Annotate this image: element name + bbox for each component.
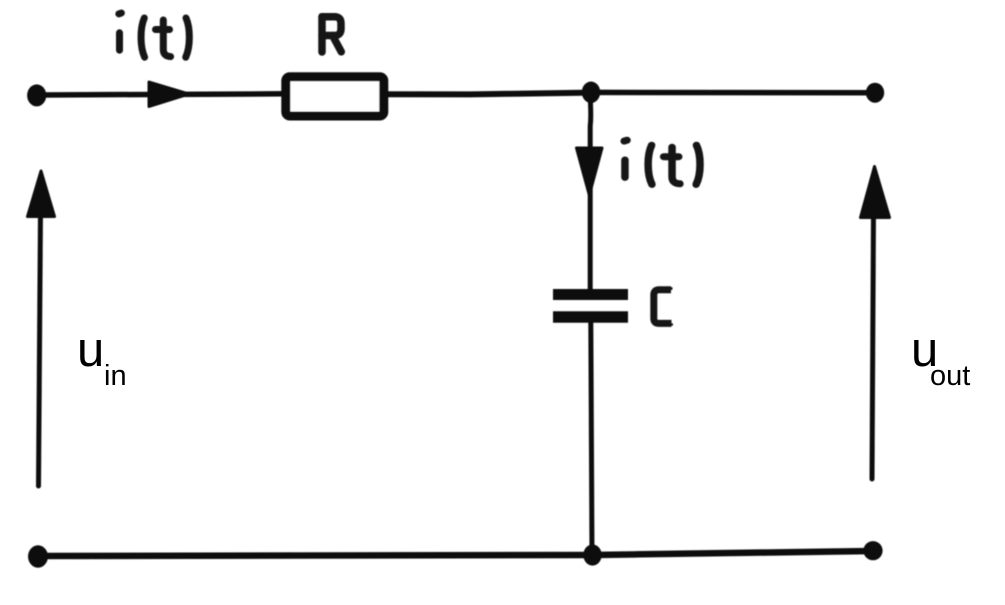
capacitor C top plate	[553, 289, 628, 300]
label i(t) capacitor current	[624, 140, 700, 184]
svg-text:u: u	[77, 323, 104, 377]
wire top rail: node A to output terminal	[591, 90, 875, 96]
wire top rail: input terminal to resistor	[37, 94, 286, 95]
svg-text:out: out	[930, 360, 970, 392]
voltage arrow u_out shaft	[872, 212, 874, 479]
wire capacitor branch upper	[588, 93, 594, 291]
label i(t) top	[119, 13, 190, 57]
voltage arrow u_out head	[861, 167, 890, 218]
terminal dot top-left	[27, 84, 46, 106]
wire top rail: resistor to node A	[384, 93, 591, 95]
node A: top junction	[582, 82, 600, 104]
terminal dot bottom-left	[28, 545, 48, 567]
wire bottom rail	[38, 551, 873, 556]
labels group	[77, 323, 970, 392]
node B: bottom junction	[583, 544, 601, 565]
label R	[322, 17, 341, 52]
voltage arrow u_in head	[28, 171, 55, 217]
label C	[654, 287, 672, 325]
current arrow i(t) on top wire	[149, 82, 189, 107]
terminal dot top-right	[866, 83, 884, 103]
resistor R	[286, 77, 384, 116]
voltage arrow u_in shaft	[39, 210, 41, 486]
terminal dot bottom-right	[863, 541, 882, 560]
wire capacitor branch lower	[591, 322, 592, 555]
svg-text:in: in	[104, 360, 127, 392]
capacitor C bottom plate	[553, 311, 628, 323]
current arrow i(t) into capacitor	[577, 148, 603, 195]
